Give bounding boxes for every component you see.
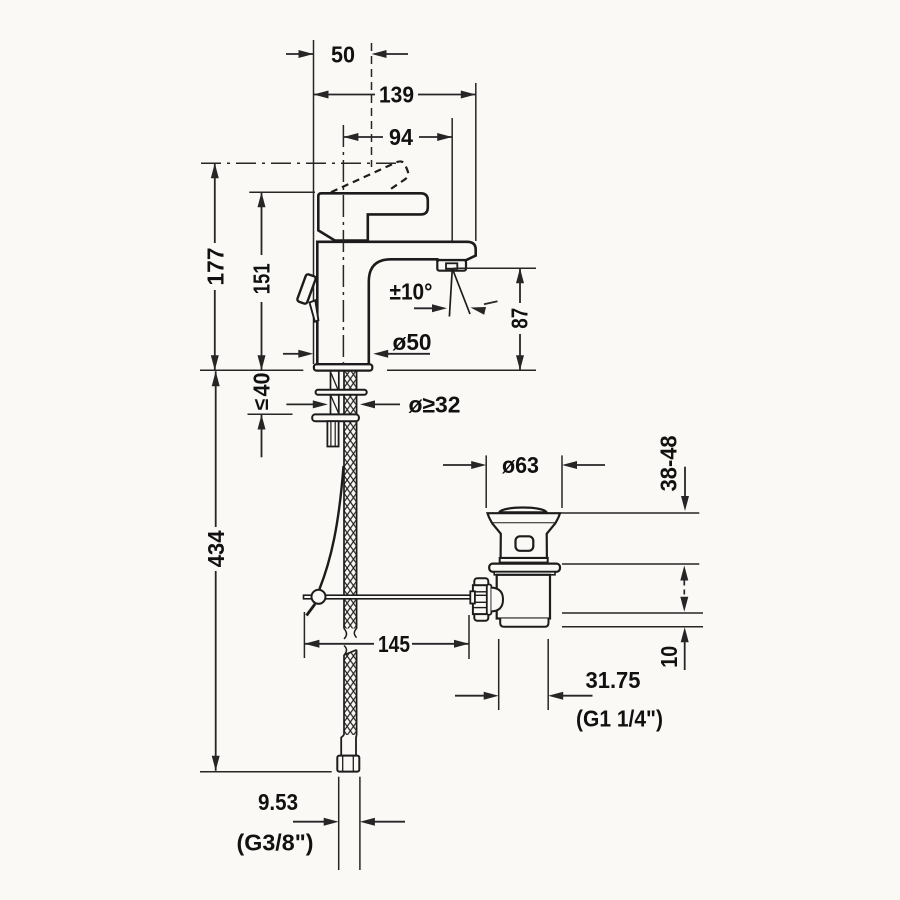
svg-text:±10°: ±10° (390, 279, 433, 305)
handle lever raised position (dashed) (331, 161, 408, 192)
lift rod knob (297, 274, 319, 322)
svg-text:434: 434 (203, 530, 229, 567)
svg-text:≤: ≤ (250, 398, 273, 410)
water stream lines (449, 269, 470, 317)
dimension 9.53 (258, 777, 405, 870)
svg-text:177: 177 (203, 248, 229, 286)
svg-text:ø63: ø63 (502, 452, 539, 478)
dimension 434 (203, 371, 229, 771)
mounting stud (331, 371, 339, 415)
extension line left of 50 and 139 (313, 40, 315, 364)
svg-text:151: 151 (248, 263, 274, 294)
knurled adjusting wheel (473, 578, 490, 621)
pull rod stub (307, 604, 316, 616)
dimension 139 (314, 82, 476, 108)
dimension max 40 (248, 373, 274, 458)
reference line flange top (561, 512, 699, 514)
svg-text:ø50: ø50 (393, 329, 432, 355)
reference line 151 top (249, 191, 315, 193)
pop-up cap (499, 508, 547, 513)
horseshoe washer (316, 390, 367, 395)
svg-text:(G1 1/4"): (G1 1/4") (576, 706, 663, 732)
dashed clamp dimension (680, 566, 688, 612)
dashed front reference line (371, 43, 373, 167)
dimension 87 (507, 268, 533, 370)
dimension diameter >= 32 (286, 391, 460, 417)
mounting nut (312, 414, 359, 421)
aerator (437, 260, 466, 271)
svg-text:94: 94 (389, 124, 413, 150)
pull rod ball joint (312, 590, 326, 604)
svg-text:38-48: 38-48 (656, 435, 682, 491)
dimension 38-48 (656, 435, 690, 511)
rod end cap (470, 591, 475, 603)
overflow window (516, 536, 534, 551)
supply hose upper (344, 371, 357, 639)
spout reference line (454, 267, 537, 269)
drain tail cap (500, 619, 548, 627)
dimension diameter 50 (283, 329, 432, 358)
hose connector (341, 735, 356, 756)
svg-text:139: 139 (379, 82, 414, 108)
hose nut (337, 756, 359, 772)
extension line 94 right (451, 118, 453, 261)
faucet body and spout (317, 242, 475, 364)
dimension plus-minus 10 degrees (390, 279, 498, 315)
reference line tail end (562, 626, 703, 628)
clamp bulge (491, 588, 503, 612)
dimension 10 (656, 627, 689, 670)
centerline faucet axis (342, 125, 344, 367)
dimension 151 (248, 192, 274, 370)
wheel hub (487, 584, 492, 614)
reference line washer (562, 563, 699, 565)
drain flange (488, 513, 561, 562)
drain body (497, 575, 550, 619)
svg-text:10: 10 (656, 646, 682, 668)
extension line 139 right (475, 83, 477, 241)
deck line right (387, 369, 536, 371)
label G1 1/4 (576, 706, 663, 732)
drain sealing washer (489, 564, 560, 575)
dimension 31.75 (455, 639, 641, 710)
stud end (327, 421, 338, 446)
base escutcheon (314, 364, 372, 370)
supply hose lower (344, 646, 357, 736)
svg-text:(G3/8"): (G3/8") (237, 830, 314, 856)
dimension 50 (286, 42, 408, 68)
svg-text:87: 87 (507, 308, 533, 329)
pull rod horizontal (304, 595, 472, 599)
pull rod curved (320, 466, 344, 589)
bottom extension line of 434 (200, 771, 332, 773)
svg-text:145: 145 (378, 631, 410, 657)
svg-text:40: 40 (248, 373, 274, 397)
handle lever (318, 193, 428, 240)
top reference line (201, 162, 398, 164)
svg-text:9.53: 9.53 (258, 789, 298, 815)
under-deck reference line (248, 413, 293, 415)
svg-text:31.75: 31.75 (586, 667, 641, 693)
dimension 145 (304, 612, 469, 659)
deck line left (200, 369, 303, 371)
svg-text:ø≥32: ø≥32 (409, 391, 461, 417)
dimension 177 (203, 163, 229, 370)
reference line body bottom (562, 612, 703, 614)
dimension diameter 63 (443, 452, 605, 508)
svg-text:50: 50 (331, 42, 355, 68)
label G3/8 (237, 830, 314, 856)
dimension 94 (343, 124, 452, 150)
